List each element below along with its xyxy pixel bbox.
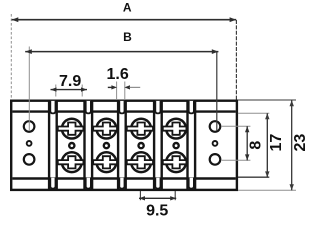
barrier wall 4 right line [160, 101, 162, 189]
terminal 4 center pilot hole [174, 143, 179, 148]
barrier 2 bottom tab [86, 178, 91, 189]
barrier 1 top tab [50, 101, 55, 114]
terminal 1 center pilot hole [69, 143, 74, 148]
svg-text:17: 17 [268, 134, 285, 152]
terminal 4 top screw head [166, 119, 186, 139]
barrier wall 1 right line [56, 101, 58, 189]
body inner bottom edge [12, 177, 235, 179]
barrier wall 3 right line [124, 101, 126, 189]
dimension A extension line left [10, 14, 12, 100]
terminal 2 bottom screw head [97, 152, 117, 172]
right end bottom mounting hole [210, 154, 221, 165]
dimension 23 leader lines [238, 99, 296, 101]
left end bottom mounting hole [24, 154, 35, 165]
dimension 1.6 extension lines [116, 82, 118, 100]
terminal 3 bottom screw head [131, 152, 151, 172]
terminal 4 top clamp cross [163, 123, 187, 135]
terminal 1 bottom clamp cross [58, 156, 84, 168]
body inner top edge [12, 110, 235, 112]
dimension 17 line [266, 113, 268, 177]
barrier 3 top tab [119, 101, 124, 114]
dimension 7.9 line [51, 89, 88, 91]
barrier wall 5 right line [194, 101, 196, 189]
barrier 5 bottom tab [189, 178, 194, 189]
terminal block outer body outline [11, 101, 237, 190]
barrier wall 5 left line [186, 101, 188, 189]
terminal 2 top clamp cross [93, 123, 117, 135]
terminal 4 bottom clamp cross [163, 156, 187, 168]
dimension A extension line right [235, 20, 237, 100]
dimension 9.5 line [139, 197, 176, 199]
dimension 23 line [291, 100, 293, 190]
left end small center hole [27, 141, 32, 146]
terminal 2 center pilot hole [104, 143, 109, 148]
dimension B extension line left (hole centerline) [28, 47, 30, 132]
barrier wall 2 right line [91, 101, 93, 189]
barrier wall 4 left line [153, 101, 155, 189]
terminal 1 top screw head [62, 119, 82, 139]
right end small center hole [213, 141, 218, 146]
terminal 2 bottom clamp cross [93, 156, 117, 168]
terminal 2 top screw head [97, 119, 117, 139]
terminal 3 top clamp cross [127, 123, 153, 135]
barrier wall 3 left line [117, 101, 119, 189]
terminal 3 center pilot hole [139, 143, 144, 148]
barrier 1 bottom tab [50, 178, 55, 189]
dimension 1.6 left leader [108, 86, 112, 88]
barrier 2 top tab [86, 101, 91, 114]
barrier wall 2 left line [83, 101, 85, 189]
dimension 17 leader lines [238, 112, 269, 114]
right end top mounting hole [210, 121, 221, 132]
svg-text:8: 8 [248, 141, 265, 150]
dimension 9.5 extension lines [139, 191, 141, 200]
dimension 7.9 extension lines [55, 85, 57, 97]
svg-text:23: 23 [292, 134, 309, 152]
terminal 3 bottom clamp cross [127, 156, 153, 168]
svg-text:9.5: 9.5 [146, 203, 168, 220]
terminal 4 bottom screw head [166, 152, 186, 172]
dimension A line [12, 19, 237, 21]
svg-text:1.6: 1.6 [106, 66, 128, 83]
barrier wall 1 left line [48, 101, 50, 189]
barrier 5 top tab [189, 101, 194, 114]
barrier 3 bottom tab [119, 178, 124, 189]
terminal 1 bottom screw head [62, 152, 82, 172]
dimension B line [25, 51, 218, 53]
terminal 3 top screw head [131, 119, 151, 139]
dimension 1.6 right leader [124, 85, 130, 89]
dimension B extension line right (hole centerline) [216, 51, 218, 131]
barrier 4 top tab [155, 101, 160, 114]
barrier 4 bottom tab [155, 178, 160, 189]
dimension 8 leader lines [222, 125, 251, 127]
svg-text:7.9: 7.9 [59, 73, 81, 90]
dimension 8 line [246, 126, 248, 160]
terminal 1 top clamp cross [58, 123, 84, 135]
svg-text:A: A [123, 1, 132, 15]
svg-text:B: B [123, 30, 132, 44]
left end top mounting hole [24, 121, 35, 132]
